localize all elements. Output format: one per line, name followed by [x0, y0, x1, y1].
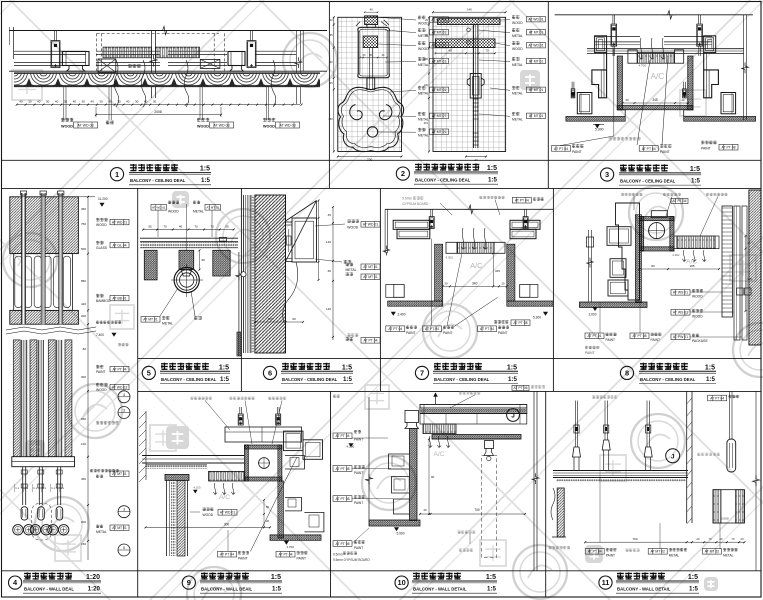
hanger left — [612, 15, 614, 24]
top ceiling band — [420, 405, 527, 414]
svg-text:AT PT 04: AT PT 04 — [279, 553, 293, 557]
svg-text:PAINT: PAINT — [606, 554, 615, 558]
svg-text:METAL: METAL — [512, 34, 523, 38]
cloud scroll right — [379, 105, 391, 120]
lower ceiling hatched strip — [432, 435, 521, 440]
right wall line — [743, 15, 745, 120]
right wall element — [238, 252, 240, 356]
grey notes top — [592, 395, 595, 397]
pendant lamp — [56, 507, 63, 520]
svg-text:AT PT 04: AT PT 04 — [588, 550, 602, 554]
right edge wall — [533, 391, 535, 571]
upper molding band left — [393, 220, 430, 229]
svg-text:AT MT 02: AT MT 02 — [705, 550, 720, 554]
svg-text:55: 55 — [148, 224, 152, 228]
bottom shelf right — [684, 116, 756, 121]
svg-text:AT MT 01: AT MT 01 — [529, 31, 544, 35]
svg-text:40: 40 — [179, 224, 183, 228]
svg-text:METAL: METAL — [512, 63, 523, 67]
svg-text:1:5: 1:5 — [691, 178, 701, 185]
svg-text:20: 20 — [445, 282, 448, 286]
svg-text:1:5: 1:5 — [342, 364, 352, 371]
hanger right — [698, 15, 700, 24]
title block detail 9 — [182, 576, 195, 589]
main runner clip left — [62, 52, 89, 66]
vertical dim — [199, 250, 201, 269]
svg-text:140: 140 — [326, 240, 331, 244]
left ceiling slab — [142, 455, 244, 457]
svg-text:PAINT: PAINT — [572, 150, 582, 154]
svg-text:300: 300 — [81, 520, 86, 524]
svg-text:GLASS: GLASS — [96, 246, 108, 250]
bottom labels — [549, 545, 552, 547]
grey notes top — [191, 396, 194, 398]
svg-text:20: 20 — [423, 508, 427, 512]
hanger right — [524, 209, 526, 216]
svg-text:WOOD: WOOD — [197, 125, 209, 129]
svg-text:1:5: 1:5 — [507, 364, 517, 371]
hatched furring blocks — [144, 250, 157, 280]
hanger rod left — [588, 230, 590, 302]
svg-text:AT PT 04: AT PT 04 — [515, 199, 529, 203]
svg-text:2: 2 — [401, 169, 405, 178]
right wall strips — [734, 206, 740, 340]
svg-text:300: 300 — [81, 375, 86, 379]
J reference circle — [507, 409, 520, 422]
bottom shelf left — [580, 302, 648, 307]
label GRG right — [701, 140, 704, 142]
AC arrows — [682, 250, 686, 261]
svg-text:3: 3 — [123, 508, 125, 512]
svg-text:PAINT: PAINT — [354, 546, 363, 550]
dims right figure — [433, 11, 506, 13]
concealed duct dashed outline — [96, 33, 98, 71]
break line — [6, 327, 96, 330]
svg-text:AT WD 03: AT WD 03 — [77, 124, 93, 128]
svg-text:AT PT 08: AT PT 08 — [633, 334, 647, 338]
svg-text:AT WD 01: AT WD 01 — [112, 385, 127, 389]
svg-text:1:5: 1:5 — [486, 574, 496, 581]
svg-text:40: 40 — [144, 100, 148, 104]
AC air flow arrows — [639, 38, 643, 59]
AC louver strip — [628, 50, 637, 63]
svg-text:100: 100 — [267, 317, 272, 321]
detail 3: coffered ceiling section with AC slot — [555, 14, 753, 16]
svg-text:30: 30 — [135, 100, 139, 104]
labels right column — [96, 217, 99, 219]
svg-text:1:5: 1:5 — [200, 166, 210, 173]
svg-text:7.400: 7.400 — [96, 333, 104, 337]
AC arrows — [461, 228, 465, 249]
ceiling line — [385, 208, 553, 210]
svg-text:PACKAGE: PACKAGE — [692, 339, 708, 343]
svg-text:PAINT: PAINT — [297, 557, 306, 561]
svg-text:AT PT 08: AT PT 08 — [336, 467, 350, 471]
rod tick bands — [473, 98, 479, 100]
svg-text:55: 55 — [225, 224, 229, 228]
svg-text:WOOD: WOOD — [61, 125, 73, 129]
detail 2: right section grid — [433, 17, 506, 151]
hanger rod right — [250, 31, 252, 41]
labels above detail 10 between bands — [512, 385, 529, 390]
coffer walls hatched — [435, 244, 443, 301]
svg-text:AT PT 08: AT PT 08 — [514, 321, 528, 325]
grey note top — [459, 391, 462, 393]
svg-text:METAL: METAL — [346, 268, 357, 272]
bottom right cabinet — [713, 490, 744, 523]
svg-text:60: 60 — [292, 317, 296, 321]
svg-text:360: 360 — [81, 207, 86, 211]
coffer rim hatched — [635, 215, 641, 303]
svg-text:40: 40 — [55, 100, 59, 104]
svg-text:1:5: 1:5 — [219, 364, 229, 371]
svg-text:WOOD: WOOD — [96, 223, 107, 227]
svg-text:215: 215 — [424, 122, 429, 125]
svg-text:60: 60 — [202, 258, 206, 262]
arrow at top — [435, 393, 437, 405]
right hatched wall — [749, 190, 761, 345]
svg-text:A/C: A/C — [651, 72, 665, 81]
svg-text:WOOD: WOOD — [512, 47, 523, 51]
title block detail 3 — [601, 168, 614, 181]
bottom shelf — [270, 535, 321, 540]
svg-text:70: 70 — [194, 224, 198, 228]
central louver strip + arrows — [423, 424, 456, 434]
hat clip — [405, 411, 419, 423]
upper right molding blocks — [284, 431, 304, 451]
svg-text:80: 80 — [651, 264, 655, 268]
hangers — [239, 407, 241, 414]
svg-text:BALCONY - WALL DEAL: BALCONY - WALL DEAL — [24, 587, 74, 592]
ceiling slab lines — [553, 470, 688, 472]
svg-text:AT PW 01: AT PW 01 — [673, 335, 688, 339]
label wood finish left — [63, 87, 65, 120]
blind louver strip right — [155, 47, 199, 58]
svg-text:40: 40 — [91, 100, 95, 104]
curtain rail bracket — [485, 441, 494, 449]
slab toothed row — [146, 465, 208, 469]
svg-text:140: 140 — [326, 307, 331, 311]
right wall column ladder — [722, 206, 732, 317]
pole pairs upper — [22, 193, 26, 324]
svg-text:30: 30 — [28, 100, 32, 104]
upper beam bands — [595, 36, 640, 38]
svg-text:J: J — [671, 454, 675, 461]
svg-text:AT WD 01: AT WD 01 — [363, 223, 378, 227]
svg-text:AT WD 01: AT WD 01 — [528, 44, 543, 48]
label wood finish mid-right — [199, 87, 201, 120]
svg-text:3.000: 3.000 — [589, 313, 597, 317]
svg-text:METAL: METAL — [512, 92, 523, 96]
dims — [623, 102, 688, 104]
svg-text:PAINT: PAINT — [354, 501, 363, 505]
bottom labels — [386, 326, 405, 332]
svg-text:9.5mm: 9.5mm — [402, 197, 412, 201]
louver strip — [446, 242, 457, 253]
svg-text:METAL: METAL — [669, 554, 680, 558]
coffer box with circle — [244, 445, 282, 449]
transom band — [12, 457, 75, 467]
svg-text:A/C: A/C — [470, 261, 483, 270]
svg-text:AT MT 01: AT MT 01 — [112, 472, 127, 476]
left lower wall — [557, 488, 564, 537]
svg-text:345: 345 — [748, 277, 753, 281]
svg-text:WOOD: WOOD — [263, 125, 275, 129]
long leader — [454, 297, 498, 326]
dimension string — [143, 229, 234, 231]
labels top — [151, 205, 167, 211]
svg-text:AT PT 04: AT PT 04 — [554, 147, 568, 151]
louver strip with arrows — [209, 471, 245, 481]
vertical leaders — [599, 478, 601, 543]
svg-text:A/C: A/C — [219, 494, 230, 501]
title block detail 11 — [599, 576, 612, 589]
svg-text:760: 760 — [632, 537, 637, 541]
upper hatched wood panel — [10, 197, 79, 254]
svg-text:850: 850 — [81, 279, 86, 283]
svg-text:5: 5 — [147, 369, 151, 378]
hanger left — [430, 209, 432, 216]
svg-text:20: 20 — [502, 282, 505, 286]
svg-text:2008: 2008 — [154, 110, 162, 114]
left stepped wall — [368, 397, 370, 520]
cloud scroll left — [350, 105, 362, 120]
svg-text:GYPSUM BOARD: GYPSUM BOARD — [402, 202, 429, 206]
svg-text:AT MT 01: AT MT 01 — [112, 526, 127, 530]
coffer box — [651, 211, 667, 218]
svg-text:AT WD 01: AT WD 01 — [220, 511, 235, 515]
svg-text:1.700: 1.700 — [286, 545, 294, 549]
svg-text:PAINT: PAINT — [651, 338, 660, 342]
svg-text:AT WS 01: AT WS 01 — [673, 291, 688, 295]
svg-text:A/C: A/C — [434, 451, 445, 458]
svg-text:AT WD 01: AT WD 01 — [112, 220, 127, 224]
svg-text:40: 40 — [126, 100, 130, 104]
svg-text:1:5: 1:5 — [508, 376, 518, 383]
svg-text:45: 45 — [328, 213, 332, 217]
title block detail 1 — [110, 168, 123, 181]
bottom label — [347, 333, 350, 335]
svg-text:AT PT 04: AT PT 04 — [673, 199, 687, 203]
svg-text:AT MT 01: AT MT 01 — [529, 88, 544, 92]
svg-text:4.902: 4.902 — [672, 253, 679, 257]
dashed enclosure around centre lamp — [32, 503, 52, 540]
svg-text:1:5: 1:5 — [688, 574, 698, 581]
svg-text:345: 345 — [495, 269, 500, 273]
svg-text:120: 120 — [81, 442, 86, 446]
svg-text:PAINT: PAINT — [585, 351, 594, 355]
svg-text:AT PT 04: AT PT 04 — [113, 367, 127, 371]
svg-text:5.300: 5.300 — [533, 316, 541, 320]
right dimension chain — [87, 197, 89, 560]
svg-text:20: 20 — [681, 98, 685, 102]
svg-text:30: 30 — [82, 100, 86, 104]
upper beam band — [225, 427, 302, 442]
svg-text:BALCONY - WALL DEAIL: BALCONY - WALL DEAIL — [201, 587, 253, 592]
label molding grey — [608, 136, 611, 138]
svg-text:70: 70 — [210, 224, 214, 228]
svg-text:AT PT 04: AT PT 04 — [388, 327, 402, 331]
svg-text:1:5: 1:5 — [272, 586, 282, 593]
hinge marks — [287, 236, 292, 245]
pendant lamp — [21, 507, 28, 520]
svg-text:AT WD 01: AT WD 01 — [152, 206, 166, 210]
upper molding band right — [510, 220, 540, 229]
svg-text:WOOD: WOOD — [168, 209, 179, 213]
svg-text:WOOD: WOOD — [347, 225, 358, 229]
svg-text:4.100: 4.100 — [194, 485, 201, 489]
centre wall joint lines — [151, 31, 153, 98]
svg-text:250: 250 — [329, 118, 334, 121]
svg-text:340: 340 — [472, 282, 478, 286]
svg-text:BALCONY - WALL DETAIL: BALCONY - WALL DETAIL — [617, 587, 671, 592]
svg-text:AT BB 01: AT BB 01 — [112, 296, 126, 300]
svg-text:PAINT: PAINT — [660, 150, 670, 154]
svg-text:AT WD 01: AT WD 01 — [528, 18, 543, 22]
upper furring channels — [587, 48, 744, 50]
hanger rod left — [54, 31, 56, 41]
svg-text:WOOD: WOOD — [203, 513, 214, 517]
svg-text:5.300: 5.300 — [595, 128, 604, 132]
labels bottom — [160, 288, 178, 316]
svg-text:1:5: 1:5 — [271, 574, 281, 581]
stepped tower — [616, 203, 640, 300]
pole tails with lamps — [22, 467, 24, 505]
carved wood ceiling band — [14, 72, 320, 86]
main runner clip right — [228, 52, 245, 66]
right stepped wall — [278, 481, 284, 538]
svg-text:8: 8 — [625, 369, 629, 378]
label paint centre — [639, 146, 658, 152]
svg-text:185: 185 — [689, 264, 694, 268]
dimension string — [17, 104, 168, 106]
svg-text:PAINT: PAINT — [701, 146, 711, 150]
title block detail 2 — [396, 167, 409, 180]
svg-text:1:5: 1:5 — [487, 586, 497, 593]
svg-text:AT MT 01: AT MT 01 — [143, 318, 158, 322]
svg-text:50: 50 — [266, 505, 270, 509]
curtain dashed box — [482, 456, 497, 558]
svg-text:140: 140 — [467, 7, 472, 11]
svg-text:30: 30 — [64, 100, 68, 104]
stone wall hatched core — [255, 195, 286, 353]
svg-text:METAL: METAL — [418, 134, 429, 138]
svg-text:150: 150 — [81, 542, 86, 546]
svg-text:J: J — [511, 413, 515, 420]
hanger rods — [574, 401, 576, 448]
svg-text:5: 5 — [123, 546, 125, 550]
svg-text:AT MT 01: AT MT 01 — [363, 275, 378, 279]
labels — [347, 219, 350, 221]
svg-text:AT PT 04: AT PT 04 — [336, 434, 350, 438]
svg-text:40: 40 — [37, 100, 41, 104]
svg-text:1:5: 1:5 — [220, 376, 230, 383]
svg-text:WOOD: WOOD — [692, 295, 703, 299]
side step blocks — [393, 285, 404, 298]
bottom labels — [585, 333, 604, 339]
open door flap diagonals — [286, 201, 317, 262]
svg-text:AT PT 08: AT PT 08 — [336, 542, 350, 546]
right wall double line — [686, 391, 688, 523]
svg-text:AT PT 01: AT PT 01 — [588, 334, 602, 338]
svg-text:AT PT 04: AT PT 04 — [364, 339, 378, 343]
svg-text:1:5: 1:5 — [705, 364, 715, 371]
svg-text:METAL: METAL — [418, 34, 429, 38]
svg-text:1:5: 1:5 — [488, 177, 498, 184]
svg-text:METAL: METAL — [512, 118, 523, 122]
svg-text:AT MT 01: AT MT 01 — [529, 114, 544, 118]
bottom dims — [255, 321, 303, 323]
svg-text:420: 420 — [81, 302, 86, 306]
glass slat band — [14, 254, 73, 311]
wall edge circle marker — [241, 272, 246, 277]
svg-text:1:5: 1:5 — [706, 376, 716, 383]
svg-text:9.5mm: 9.5mm — [333, 553, 343, 557]
svg-text:80: 80 — [83, 347, 87, 351]
svg-text:300: 300 — [224, 522, 230, 526]
cloud board neck frame — [366, 25, 368, 28]
svg-text:1:20: 1:20 — [88, 586, 101, 593]
ceiling slab — [140, 237, 238, 239]
svg-text:30: 30 — [153, 100, 157, 104]
coffer box hatched walls — [617, 56, 622, 110]
small end hangers — [683, 82, 685, 89]
title block detail 10 — [395, 576, 408, 589]
svg-text:AT WS 01: AT WS 01 — [673, 311, 688, 315]
corner scroll marks — [381, 22, 387, 26]
svg-text:10: 10 — [397, 578, 405, 587]
svg-text:BALCONY - CEILING DEAL: BALCONY - CEILING DEAL — [161, 377, 217, 382]
wood cap band top — [438, 19, 500, 25]
svg-text:AT MT 02: AT MT 02 — [650, 550, 665, 554]
svg-text:700: 700 — [474, 508, 480, 512]
upper molding block right — [704, 36, 716, 53]
svg-text:AT WD 03: AT WD 03 — [213, 124, 229, 128]
svg-text:PAINT: PAINT — [406, 331, 415, 335]
lower hatched band — [10, 310, 79, 324]
lower wall with poles — [13, 340, 20, 457]
long leader — [250, 457, 297, 551]
stone wall layers — [243, 195, 245, 353]
svg-text:AT MT 01: AT MT 01 — [529, 59, 544, 63]
svg-text:1:5: 1:5 — [689, 586, 699, 593]
bottom shelves — [388, 301, 443, 306]
svg-text:4.200: 4.200 — [347, 444, 355, 448]
bracket leader curve — [283, 262, 298, 322]
svg-text:AT PT 04: AT PT 04 — [220, 553, 234, 557]
bottom shelf — [369, 520, 420, 526]
svg-text:AT PT 08: AT PT 08 — [336, 497, 350, 501]
cross brace box left — [98, 59, 116, 72]
svg-text:AT WD 03: AT WD 03 — [279, 124, 295, 128]
leader lines to paint labels — [637, 60, 650, 145]
louver strip right of box — [677, 236, 715, 249]
svg-text:90: 90 — [431, 475, 435, 479]
svg-text:3.400: 3.400 — [398, 313, 406, 317]
wood band mid — [435, 39, 495, 48]
svg-text:1: 1 — [115, 170, 119, 179]
labels for left cloud board — [374, 17, 416, 20]
blind louver strip left — [103, 47, 152, 58]
detail 2: cloud board setting-out, left elevation grid — [338, 17, 402, 151]
svg-text:6: 6 — [268, 369, 272, 378]
grey oval note — [697, 452, 700, 454]
svg-text:BAMBOO: BAMBOO — [96, 299, 111, 303]
bottom labels — [218, 551, 237, 557]
svg-text:METAL: METAL — [162, 322, 173, 326]
svg-text:30: 30 — [117, 100, 121, 104]
label centre — [108, 87, 110, 120]
